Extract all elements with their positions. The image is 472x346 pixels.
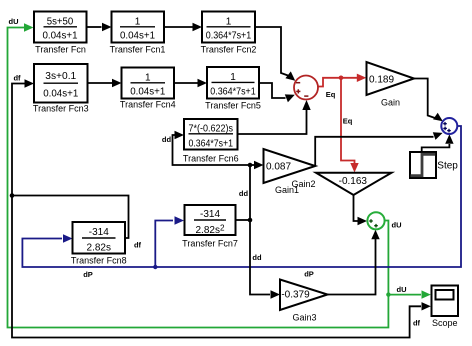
sink Scope block [432,286,459,317]
svg-text:Transfer Fcn3: Transfer Fcn3 [33,104,89,114]
sum S2 blue circle [441,118,457,134]
wire dU feedback (green net) [8,28,389,328]
gain U: Gain1 0.087 [264,149,316,183]
svg-text:5s+50: 5s+50 [47,17,74,28]
gain U: Gain3 -0.379 [280,280,328,311]
svg-text:-0.163: -0.163 [339,176,368,187]
svg-text:Transfer Fcn5: Transfer Fcn5 [205,101,261,111]
svg-text:Eq: Eq [326,90,336,99]
transfer fcn block: Transfer Fcn5 [207,67,259,99]
svg-text:3s+0.1: 3s+0.1 [45,71,76,82]
svg-text:Transfer Fcn4: Transfer Fcn4 [120,100,176,110]
svg-text:0.364*7s+1: 0.364*7s+1 [189,139,234,150]
svg-text:7*(-0.622)s: 7*(-0.622)s [189,124,234,135]
wire Transfer Fcn4 to Transfer Fcn5 [174,82,198,84]
svg-text:Gain2: Gain2 [291,179,315,189]
svg-text:dP: dP [304,270,314,279]
wire arrowhead dU into Transfer Fcn [24,23,34,31]
transfer fcn block: Transfer Fcn3 [34,64,88,103]
svg-text:2.82s: 2.82s [87,243,111,254]
svg-text:0.04s+1: 0.04s+1 [43,89,78,100]
wire Transfer Fcn3 to Transfer Fcn4 [88,82,113,84]
svg-text:dP: dP [83,270,93,279]
svg-text:df: df [413,319,421,328]
svg-text:df: df [134,241,142,250]
wire Eq branch down to Gain2 [341,78,355,163]
svg-text:1: 1 [226,17,232,28]
wire Transfer Fcn2 to red sum [255,27,288,76]
svg-text:-314: -314 [89,227,109,238]
node dU junction [386,292,390,296]
node Eq junction [339,76,344,81]
wire Transfer Fcn5 to red sum [259,83,286,98]
wire df feedback vertical+bottom (black net) [12,196,129,239]
svg-text:Transfer Fcn: Transfer Fcn [35,45,86,55]
wire arrowhead dd into Transfer Fcn6 [175,131,185,139]
svg-text:df: df [13,74,21,83]
svg-text:Gain3: Gain3 [292,313,316,323]
wire arrowhead dP into Transfer Fcn8 [63,234,73,242]
svg-text:Transfer Fcn2: Transfer Fcn2 [201,45,257,55]
sum S3 green circle [367,212,384,229]
transfer fcn block: Transfer Fcn8 [73,222,126,254]
svg-text:0.04s+1: 0.04s+1 [43,31,78,42]
svg-text:0.04s+1: 0.04s+1 [120,31,155,42]
svg-text:-0.379: -0.379 [281,290,310,301]
svg-text:1: 1 [145,73,151,84]
wire Gain out to blue sum [414,79,435,119]
wire Gain2 out to green sum [354,195,359,221]
svg-text:Transfer Fcn7: Transfer Fcn7 [182,239,238,249]
wire Transfer Fcn to Transfer Fcn1 [87,26,102,28]
wire arrowhead dd into Gain1 [254,161,264,169]
transfer fcn block: Transfer Fcn7 [185,205,236,235]
svg-text:Transfer Fcn1: Transfer Fcn1 [110,45,166,55]
gain U: Gain 0.189 [367,62,415,95]
wire arrowhead dU into Scope [422,290,431,298]
transfer fcn block: Transfer Fcn6 [184,119,238,150]
source Step block [410,152,436,178]
svg-text:1: 1 [135,17,141,28]
svg-text:Eq: Eq [343,117,353,126]
svg-text:dU: dU [9,17,19,26]
svg-text:dU: dU [392,221,402,230]
svg-text:-314: -314 [200,209,220,220]
sum S1 red circle [294,76,318,100]
transfer fcn block: Transfer Fcn [34,12,87,43]
svg-text:0.04s+1: 0.04s+1 [130,87,165,98]
wire Transfer Fcn6 out to red sum bottom [238,110,307,135]
svg-text:1: 1 [230,72,236,83]
svg-text:dd: dd [252,253,262,262]
wire dP branch to Transfer Fcn7 [155,221,173,268]
wire Gain1 out to blue sum (long horizontal) [315,137,433,166]
node dd junction upper [248,163,253,168]
wire Transfer Fcn1 to Transfer Fcn2 [164,26,193,28]
svg-text:0.364*7s+1: 0.364*7s+1 [206,31,252,42]
wire arrowhead df into Transfer Fcn3 [25,79,35,87]
svg-text:Step: Step [437,161,458,172]
wire Gain3 out to green sum [328,239,376,295]
node df junction [10,193,15,198]
transfer fcn block: Transfer Fcn2 [202,12,255,43]
svg-text:Transfer Fcn8: Transfer Fcn8 [71,256,127,266]
wire dd net (black): Fcn7 out up/down branches [236,219,251,221]
svg-text:Gain: Gain [381,98,400,108]
svg-text:0.189: 0.189 [369,75,394,86]
svg-text:0.364*7s+1: 0.364*7s+1 [210,87,256,98]
gain U: Gain2 -0.163 (points down) [316,173,392,195]
transfer fcn block: Transfer Fcn1 [112,12,165,43]
wire Eq: red sum output to Gain [318,78,358,87]
svg-text:dd: dd [239,189,249,198]
svg-text:Scope: Scope [432,318,458,328]
wire Step out to blue sum [422,144,450,152]
node dd junction lower [248,218,253,223]
wire dP net (blue): sum3 output right, down, along bottom, to Fcn8 [22,126,461,267]
svg-text:dU: dU [397,285,407,294]
svg-text:Transfer Fcn6: Transfer Fcn6 [183,154,239,164]
wire arrowhead df into Scope [422,302,431,310]
wire arrowhead dd into Gain3 [271,290,281,298]
svg-text:dd: dd [162,135,172,144]
wire dU branch to Scope [388,294,421,296]
svg-text:0.087: 0.087 [266,162,291,173]
transfer fcn block: Transfer Fcn4 [122,68,175,99]
wire arrowhead dP into Transfer Fcn7 [175,216,185,224]
node dP junction [153,265,157,269]
